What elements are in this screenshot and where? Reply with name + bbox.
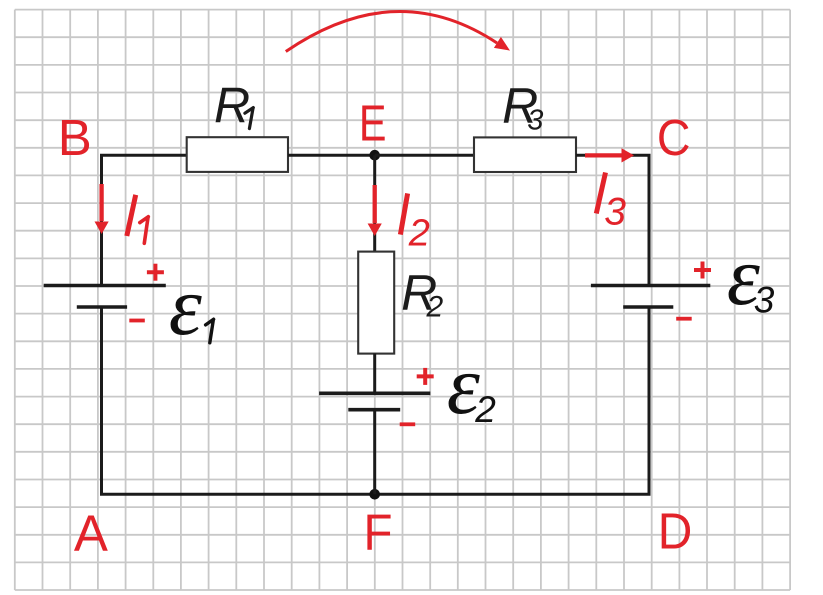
resistor R1 bbox=[187, 137, 288, 172]
battery E2 short plate (-) bbox=[348, 408, 400, 412]
label I2 bbox=[400, 193, 430, 254]
current arrow I1 bbox=[95, 184, 109, 234]
svg-text:C: C bbox=[657, 109, 691, 166]
svg-text:B: B bbox=[58, 109, 92, 166]
wire R1 to E bbox=[288, 154, 375, 157]
svg-text:2: 2 bbox=[474, 389, 496, 430]
svg-text:ε: ε bbox=[169, 260, 203, 353]
battery E3 long plate (+) bbox=[591, 284, 710, 288]
plus sign for E1 bbox=[147, 264, 164, 281]
wire E to R3 bbox=[375, 154, 474, 157]
current arrow I2 bbox=[368, 185, 382, 236]
plus sign for E2 bbox=[417, 368, 434, 385]
node E junction dot bbox=[369, 150, 380, 161]
svg-text:A: A bbox=[74, 505, 108, 562]
minus sign for E2 bbox=[400, 422, 416, 426]
wire top-left segment B to R1 (corner at B) bbox=[102, 155, 187, 285]
svg-text:R: R bbox=[214, 78, 250, 134]
label EMF E3 bbox=[727, 230, 775, 323]
wire battery1 down to A corner then along bottom to F (corner at A) bbox=[102, 307, 375, 494]
resistor R2 bbox=[358, 252, 394, 354]
node F junction dot bbox=[369, 489, 380, 500]
svg-text:3: 3 bbox=[754, 280, 775, 321]
svg-text:2: 2 bbox=[408, 213, 430, 255]
loop direction curved arrow bbox=[286, 11, 510, 51]
wire R3 to C then down to battery3 (corner at C) bbox=[576, 155, 649, 285]
resistor R3 bbox=[474, 137, 576, 172]
battery E3 short plate (-) bbox=[623, 305, 673, 309]
wire battery2 down to F bbox=[373, 410, 376, 495]
battery E2 long plate (+) bbox=[319, 391, 430, 395]
wire R2 down to battery2 bbox=[373, 354, 376, 394]
svg-text:3: 3 bbox=[604, 190, 626, 233]
svg-text:D: D bbox=[658, 502, 693, 559]
svg-text:3: 3 bbox=[527, 105, 543, 137]
svg-text:2: 2 bbox=[426, 290, 444, 323]
svg-text:E: E bbox=[359, 94, 387, 151]
current arrow I3 bbox=[585, 148, 634, 162]
plus sign for E3 bbox=[694, 262, 711, 279]
label I1 bbox=[127, 195, 149, 244]
battery E1 short plate (-) bbox=[77, 305, 127, 309]
label R2 bbox=[401, 265, 443, 324]
label I3 bbox=[596, 173, 626, 234]
label R3 bbox=[502, 78, 543, 137]
minus sign for E1 bbox=[129, 319, 145, 323]
label EMF E1 bbox=[169, 260, 214, 353]
label EMF E2 bbox=[447, 339, 497, 432]
wire battery3 down to D corner then along bottom to F (corner at D) bbox=[375, 307, 649, 494]
label R1 bbox=[214, 78, 253, 134]
battery E1 long plate (+) bbox=[44, 284, 166, 288]
minus sign for E3 bbox=[676, 317, 692, 321]
wire E down to R2 bbox=[373, 155, 376, 251]
svg-text:F: F bbox=[364, 504, 393, 561]
